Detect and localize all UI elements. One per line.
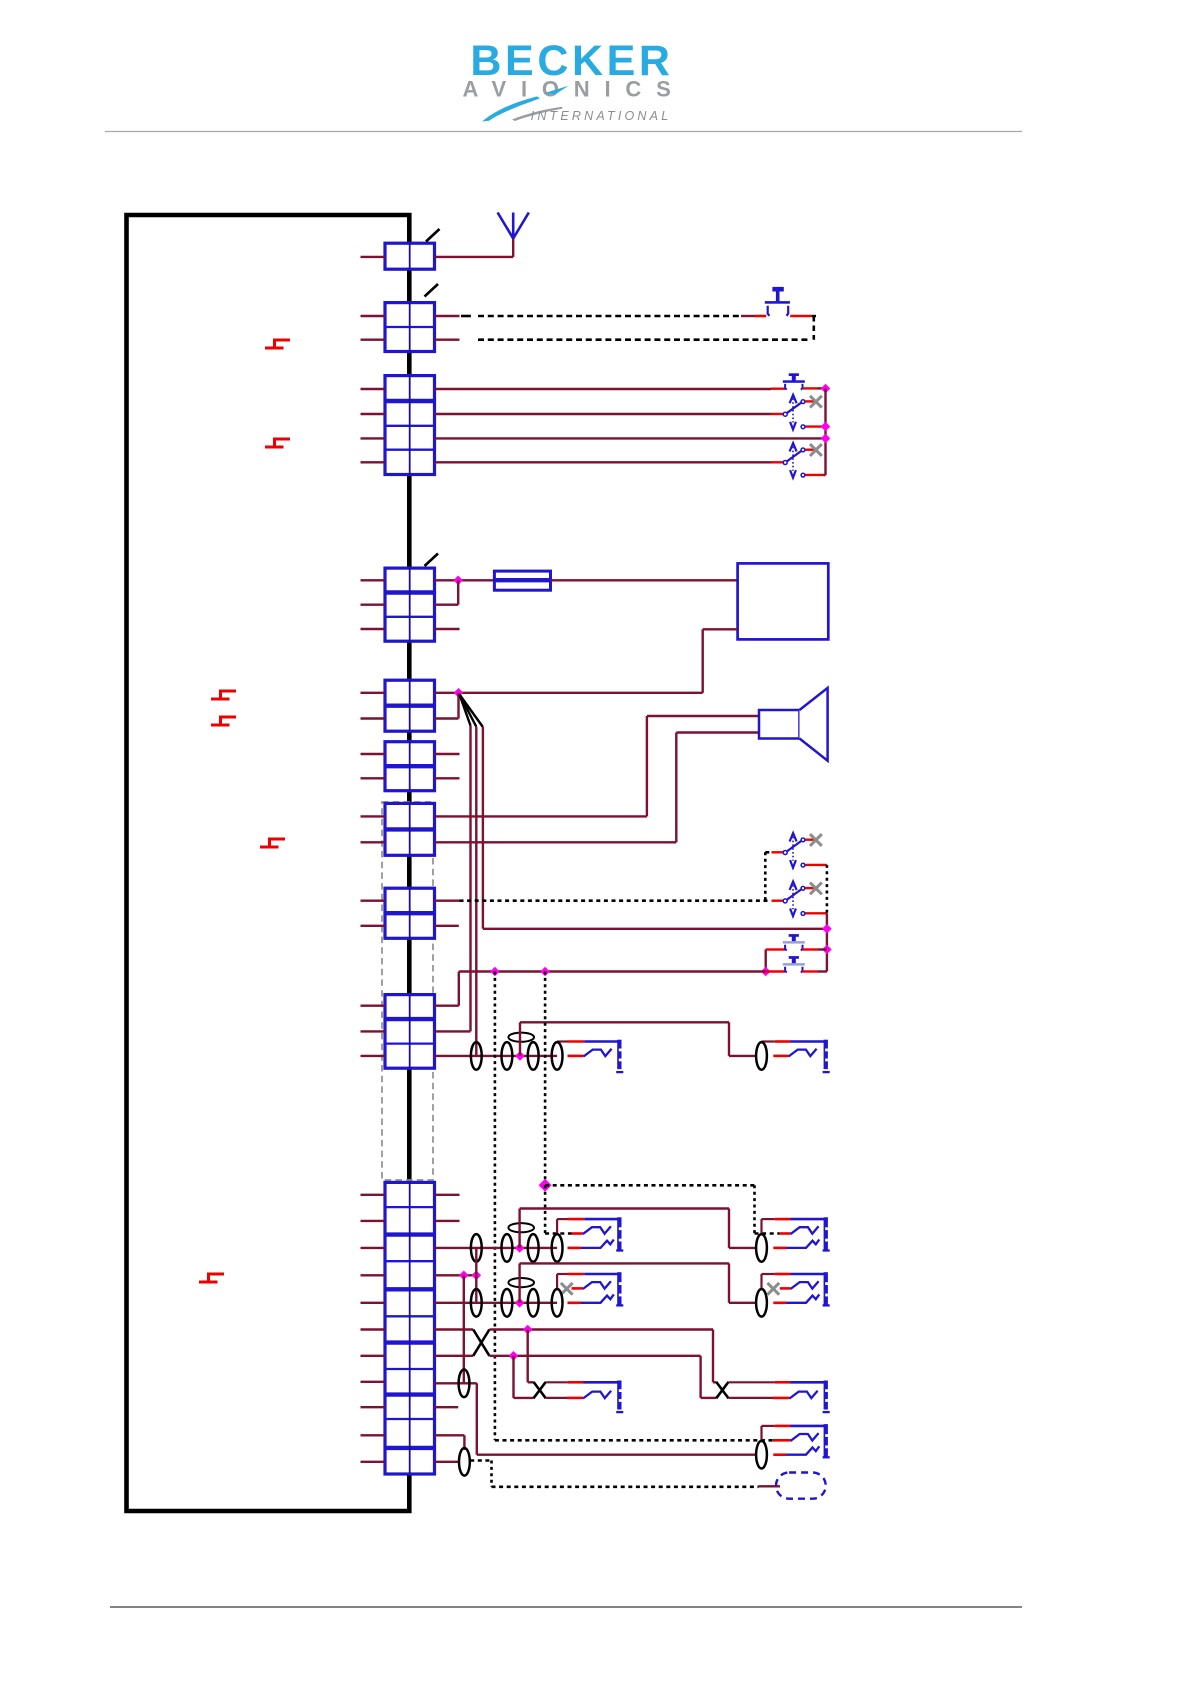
wire P10 pin 3 stub [361, 1247, 386, 1249]
wire P3-3 [435, 437, 823, 439]
wire riser 1 [469, 726, 471, 1032]
junction mic cold [509, 1351, 519, 1361]
wire P6 pin 1 stub [361, 753, 386, 755]
wire P3 pin 4 stub [361, 461, 386, 463]
push-button S1 PTT [765, 287, 790, 304]
wire remote stub [759, 1485, 780, 1487]
cable ring 3B [502, 1289, 513, 1317]
wire mic cold [489, 1355, 700, 1357]
wire battery return [703, 628, 738, 630]
connector P1 [385, 243, 435, 269]
crossover X1 [473, 1330, 489, 1356]
push-button S2 [783, 373, 805, 383]
junction power [453, 575, 463, 585]
wire P10 pin 1 stub [361, 1194, 386, 1196]
junction gnd A [459, 1270, 469, 1280]
wire P7 pin 2 stub [361, 841, 386, 843]
toggle switch S4 [772, 461, 784, 463]
junction PB left [761, 967, 771, 977]
junction rail B [540, 967, 550, 977]
junction gnd B [471, 1270, 481, 1280]
junction S3 lower [821, 422, 831, 432]
junction P3-3 [821, 434, 831, 444]
battery unit B1 [738, 563, 829, 639]
wire PTT switch right red [790, 315, 812, 318]
wire headset3 feed [518, 1263, 520, 1302]
wire lower bus [826, 913, 828, 971]
wire P10-11 [435, 1461, 459, 1463]
wire mic hot drop [527, 1330, 529, 1383]
wire P4 pin 3 stub [361, 628, 386, 630]
coax slash P2 [425, 284, 439, 297]
no-connect X S5 [810, 834, 822, 846]
wire P2 pin 1 stub [361, 315, 386, 317]
wire micR corner [713, 1381, 716, 1383]
wire PTT switch left red [741, 315, 755, 317]
wire fuse to battery [551, 579, 738, 581]
wire P10-5 chain [435, 1302, 558, 1304]
wire P6 pin 1 lead [435, 753, 460, 755]
cable ring 1C [528, 1042, 539, 1070]
wire P3 pin 1 stub [361, 388, 386, 390]
header rule [105, 131, 1022, 133]
jack J-R3 headset [760, 1274, 762, 1290]
red glyph A [265, 340, 290, 348]
connector P6 [385, 742, 435, 791]
cable ring 1B [502, 1042, 513, 1070]
wire P10-3 chain [435, 1247, 558, 1249]
connector P8 [385, 888, 435, 938]
junction chain 3 [515, 1298, 525, 1308]
cable ring 5 [459, 1448, 470, 1476]
junction chain 2 [515, 1243, 525, 1253]
wire P10 pin 2 lead [435, 1220, 460, 1222]
wire P9 pin 3 stub [361, 1055, 386, 1057]
cable ring 4 [459, 1370, 470, 1398]
footer rule [110, 1606, 1022, 1608]
wire P5-1 [435, 692, 703, 694]
wire P10 pin 4 stub [361, 1274, 386, 1276]
wire riser 2 [475, 727, 477, 1056]
svg-text:AVIONICS: AVIONICS [462, 77, 685, 102]
push-button S7 [783, 934, 805, 944]
wire P8 pin 1 stub [361, 900, 386, 902]
wire headset1 feed [519, 1022, 521, 1056]
dashed harness boundary [382, 802, 433, 1180]
connector P4 [385, 568, 435, 641]
junction audio node [454, 688, 464, 698]
junction bus PB [822, 945, 832, 955]
connector P7 [385, 803, 435, 855]
wire PTT dashed return [812, 316, 815, 340]
jack J-R5 aux [760, 1426, 762, 1442]
wire mic hot [489, 1328, 713, 1330]
cable ring 2A [471, 1234, 482, 1262]
no-connect X S3 [810, 396, 822, 408]
wire S7 right [803, 948, 818, 950]
wire fan lead 1 [460, 695, 471, 726]
wire P9-3 chain [435, 1055, 558, 1057]
wire P4-3 stub [435, 628, 460, 630]
wire P3 pin 3 stub [361, 437, 386, 439]
wire antenna feed [435, 256, 514, 258]
cable ring 3A [471, 1289, 482, 1317]
wire PB pair left node [765, 950, 767, 972]
Becker logo O-arrow [544, 86, 569, 94]
toggle switch S3 [772, 413, 784, 415]
junction rail B diamond [539, 1179, 552, 1192]
coax slash P4 [425, 554, 439, 567]
wire P10 pin 6 stub [361, 1328, 386, 1330]
connector P10 [385, 1182, 435, 1474]
red glyph E [199, 1274, 224, 1282]
wire P10 pin 2 stub [361, 1220, 386, 1222]
junction bus mid [822, 924, 832, 934]
dotted rail A [494, 972, 497, 1441]
dotted rail B right [545, 1184, 754, 1187]
wire S5 dotted left [765, 851, 771, 854]
push-button S8 [783, 956, 805, 966]
wire P3-1 [435, 388, 772, 390]
wire P10 pin 5 stub [361, 1302, 386, 1304]
wire P9 pin 2 stub [361, 1030, 386, 1032]
dotted rail B down [544, 1185, 547, 1233]
wire P4-1 [435, 579, 495, 581]
wire P1 pin stub [361, 256, 386, 258]
wire S8 right [803, 970, 818, 972]
wire S2 right [803, 387, 818, 389]
wire fan lead 3 [460, 695, 483, 728]
wire P4-2 link [435, 604, 459, 606]
wire P5 pin 2 stub [361, 717, 386, 719]
remote unit dashed [776, 1473, 826, 1499]
jack J-L1 phones [556, 1042, 558, 1044]
wire gnd tie 2 [463, 1275, 465, 1383]
wire P10 pin 8 stub [361, 1381, 386, 1383]
no-connect X S6 [810, 883, 822, 895]
wire PTT dashed 2 [478, 338, 810, 341]
cable ring 2C [528, 1234, 539, 1262]
wire P9-2 [435, 1030, 471, 1032]
wire P10 pin 11 stub [361, 1461, 386, 1463]
jack J-L2 headset [556, 1219, 558, 1235]
dotted remote link [470, 1459, 491, 1462]
wire S5-S6 dotted right [826, 865, 829, 913]
wire P5 pin 1 stub [361, 692, 386, 694]
wire P4 pin 2 stub [361, 604, 386, 606]
wire P10-7 [435, 1355, 474, 1357]
wire P10 pin 7 stub [361, 1355, 386, 1357]
wire gnd tie 1 [475, 1248, 477, 1303]
junction rail A [490, 967, 500, 977]
shield loop 2 [508, 1223, 534, 1232]
wire P3-2 [435, 413, 772, 415]
jack J-R4 mic [716, 1382, 728, 1398]
red glyph D [260, 839, 285, 847]
wire PTT dashed 1 [461, 315, 471, 318]
jack J-R2 headset [760, 1219, 762, 1235]
wire speaker return [435, 841, 677, 843]
cable ring 3C [528, 1289, 539, 1317]
wire fan lead 2 [460, 695, 477, 727]
toggle switch S5 [772, 851, 784, 853]
wire P10-6 [435, 1328, 474, 1330]
wire P10-8 [435, 1382, 477, 1384]
wire P5-2 link [435, 717, 459, 719]
junction bus top [821, 384, 831, 394]
wire micL corner [528, 1381, 534, 1383]
shield loop 3 [508, 1278, 534, 1287]
wire S8 left red [766, 970, 785, 972]
wire mic cold drop [512, 1356, 514, 1398]
wire P8 pin 2 lead [435, 925, 459, 927]
connector P3 [385, 376, 435, 475]
wire P3 pin 2 stub [361, 413, 386, 415]
wire headset2 feed [518, 1209, 520, 1248]
junction chain 1 [515, 1051, 525, 1061]
jack J-R1 phones [760, 1042, 762, 1044]
wire P2 pin 2 stub [361, 339, 386, 341]
wire S7 left red [771, 948, 786, 950]
wire P10 pin 10 stub [361, 1434, 386, 1436]
jack J-L3 headset [556, 1274, 558, 1290]
wire speaker hot [435, 815, 647, 817]
wire P3-4 [435, 461, 772, 463]
speaker LS1 [759, 710, 800, 739]
connector P5 [385, 680, 435, 731]
red glyph C1 [211, 691, 236, 699]
wire riser 3 [482, 727, 484, 929]
red glyph C2 [211, 717, 236, 725]
wire P8 pin 2 stub [361, 925, 386, 927]
cable ring 1A [471, 1042, 482, 1070]
wire P8 dotted [435, 900, 460, 902]
wire P6 pin 2 stub [361, 777, 386, 779]
fuse F1 [494, 571, 550, 590]
wire P10 pin 9 stub [361, 1406, 386, 1408]
junction mic hot [523, 1325, 533, 1335]
connector P2 [385, 303, 435, 352]
wire P10-4 stub [435, 1274, 477, 1276]
red glyph B [265, 439, 290, 447]
wire P2 pin 2 lead [435, 339, 460, 341]
wire P10-10 [435, 1434, 465, 1436]
connector P9 [385, 995, 435, 1069]
dotted rail B [544, 972, 547, 1186]
wire P10 pin 9 lead [435, 1406, 459, 1408]
toggle switch S6 [772, 900, 784, 902]
shield loop 1 [508, 1033, 534, 1042]
wire P6 pin 2 lead [435, 777, 460, 779]
wire P2 pin 1 lead [435, 315, 460, 317]
svg-text:INTERNATIONAL: INTERNATIONAL [531, 109, 672, 123]
wire P4 pin 1 stub [361, 579, 386, 581]
wire P7 pin 1 stub [361, 815, 386, 817]
coax slash P1 [426, 229, 440, 242]
transceiver unit outline [127, 215, 410, 1511]
wire P9-1 to PB rail [435, 1005, 459, 1007]
Becker logo swoosh [482, 96, 540, 121]
wire aux ring run [476, 1383, 478, 1454]
jack J-L4 mic [534, 1382, 546, 1398]
wire P10 pin 1 lead [435, 1194, 460, 1196]
wire P9 pin 1 stub [361, 1005, 386, 1007]
no-connect X S4 [810, 444, 822, 456]
wire toggle bus [824, 389, 826, 476]
antenna AN1 [498, 213, 529, 239]
cable ring 2B [502, 1234, 513, 1262]
